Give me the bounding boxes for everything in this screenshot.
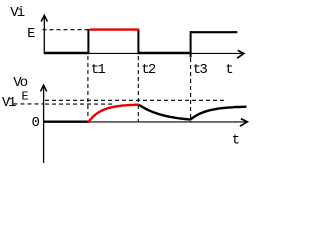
svg-text:t1: t1 [91, 62, 106, 78]
svg-text:E: E [22, 90, 29, 104]
Vi waveform zero segment 2 [138, 52, 192, 55]
dashed E level line (top) [43, 29, 89, 31]
dashed vertical guide at t2 [137, 56, 139, 123]
Vi axis arrowhead [41, 15, 47, 21]
Vi waveform zero segment 1 [44, 52, 89, 55]
Vi rising edge at t3 [190, 31, 192, 57]
Vi rising edge at t1 [87, 29, 89, 54]
svg-text:t: t [232, 132, 240, 148]
red charging curve (t1 to t2) [88, 105, 139, 123]
Vo t axis arrowhead [240, 119, 247, 127]
svg-text:E: E [27, 27, 35, 42]
Vo waveform zero segment [44, 120, 89, 122]
dashed vertical guide at t3 [190, 58, 192, 123]
svg-text:t: t [225, 62, 233, 78]
svg-text:0: 0 [32, 115, 40, 131]
svg-text:Vi: Vi [10, 5, 24, 21]
dashed leader from V1 label to axis [14, 103, 44, 105]
Vi waveform high segment after t3 [190, 31, 237, 33]
svg-text:t2: t2 [141, 62, 156, 78]
Vo vertical axis [43, 86, 45, 164]
Vi vertical axis [43, 16, 45, 54]
Vo t axis [43, 121, 247, 123]
dashed E level line (bottom) [45, 99, 225, 101]
Vi t axis arrowhead [237, 50, 244, 58]
dashed vertical guide at t1 [87, 56, 89, 119]
Vi t axis [44, 52, 243, 54]
black discharging curve (t2 to t3) [139, 105, 191, 120]
dashed V1 level line (bottom) [45, 103, 113, 105]
Vi falling edge at t2 [137, 30, 139, 55]
Vo axis arrowhead [41, 85, 47, 91]
black charging curve (after t3) [191, 107, 247, 120]
red pulse top segment (t1 to t2) [90, 28, 140, 30]
svg-text:t3: t3 [193, 62, 208, 78]
